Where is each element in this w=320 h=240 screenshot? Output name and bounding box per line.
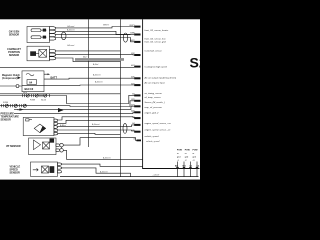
- svg-text:No.4: No.4: [23, 92, 27, 94]
- bottom letterbox bar: [0, 180, 200, 200]
- svg-text:map_oil_pressure: map_oil_pressure: [145, 107, 163, 109]
- power ground table: [177, 150, 198, 162]
- svg-text:LtGreen’: LtGreen’: [67, 44, 75, 47]
- camshaft sensor box: [27, 46, 50, 61]
- camshaft sensor connector: [50, 50, 56, 60]
- top letterbox bar: [0, 0, 200, 19]
- shield ellipse O2 left: [61, 32, 66, 40]
- PT sensor box: [23, 117, 54, 135]
- svg-text:LtGreen’: LtGreen’: [67, 25, 75, 28]
- wire PT signal1: [58, 120, 121, 123]
- svg-text:Sensor_(M_results_): Sensor_(M_results_): [145, 101, 166, 104]
- svg-text:...wheel’: ...wheel’: [152, 175, 160, 177]
- ECU connector edge line: [143, 19, 200, 168]
- svg-text:VP SENSOR: VP SENSOR: [6, 145, 21, 148]
- wire camshaft ground: [56, 53, 135, 56]
- AC relay box A4: [22, 71, 44, 92]
- wire vertical bus V2: [119, 19, 121, 176]
- svg-text:B5: B5: [132, 130, 134, 132]
- wire PT ground: [58, 129, 136, 132]
- svg-text:A22: A22: [130, 82, 134, 85]
- svg-text:front_O2_sensor_hov: front_O2_sensor_hov: [145, 38, 167, 41]
- wire VSS ground: [61, 168, 130, 177]
- svg-text:A,Green’: A,Green’: [102, 157, 111, 160]
- wire VP +: [62, 138, 137, 149]
- svg-text:air_timing_sensor: air_timing_sensor: [145, 92, 163, 95]
- svg-text:WHT1’: WHT1’: [103, 25, 110, 27]
- svg-text:front_O2_sensor_heater: front_O2_sensor_heater: [145, 29, 169, 32]
- wire PT aux: [58, 133, 121, 134]
- wire clutch sense: [22, 84, 134, 86]
- oxygen sensor box: [27, 27, 50, 43]
- wire ignition feed: [14, 106, 135, 109]
- power ground drops: [178, 162, 198, 177]
- svg-text:A,Green’: A,Green’: [66, 29, 75, 32]
- shield ellipse O2 right: [123, 33, 127, 42]
- svg-text:X24A: X24A: [129, 32, 135, 35]
- shield ellipse speed: [123, 123, 127, 133]
- wire VSS signal: [61, 164, 142, 166]
- VP sensor box: [29, 138, 56, 155]
- connector circle VP2: [60, 149, 64, 153]
- svg-text:A,Green’: A,Green’: [92, 74, 101, 77]
- PT sensor connector: [54, 119, 58, 135]
- wire vertical bus V1: [88, 19, 90, 147]
- wire PT signal2: [58, 125, 136, 127]
- svg-text:A15: A15: [130, 76, 134, 79]
- svg-text:FUSE: FUSE: [3, 102, 9, 104]
- svg-text:vehicle_speed’: vehicle_speed’: [146, 141, 160, 143]
- svg-text:A31: A31: [130, 110, 134, 113]
- svg-text:B4: B4: [132, 122, 134, 125]
- fuse chain row 2: [0, 101, 135, 107]
- wire over PT box: [14, 112, 135, 113]
- svg-text:er: er: [185, 152, 187, 155]
- wire relay out top: [44, 73, 48, 75]
- ECU pins: label + pad at connector: [129, 25, 141, 142]
- wire clutch ground: [0, 85, 22, 87]
- vehicle speed sensor box: [31, 162, 58, 176]
- svg-text:engine_speed_sensor_+ve: engine_speed_sensor_+ve: [145, 123, 172, 125]
- svg-text:A,Blue’: A,Blue’: [59, 124, 67, 127]
- svg-text:B20: B20: [131, 99, 134, 101]
- wire camshaft signal: [56, 50, 121, 52]
- svg-text:FUSE: FUSE: [30, 100, 36, 102]
- oxygen sensor connector: [50, 27, 56, 40]
- power ground pin designators: [175, 165, 200, 167]
- svg-text:vehicle_speed: vehicle_speed: [145, 136, 160, 138]
- svg-text:BH C2: BH C2: [25, 87, 34, 91]
- svg-text:POW: POW: [185, 150, 190, 152]
- svg-text:er: er: [193, 152, 195, 155]
- wire relay to ECU: [44, 77, 134, 80]
- wire main feed row: [0, 93, 120, 95]
- wire PT 5V: [58, 117, 136, 120]
- svg-text:S2: S2: [190, 55, 201, 71]
- pin bumps on ECU bottom line: [176, 167, 198, 169]
- wire VP -: [63, 150, 142, 159]
- svg-text:SENSOR: SENSOR: [1, 119, 12, 122]
- svg-text:A,Grn’: A,Grn’: [92, 63, 99, 66]
- chassis ground bus: [60, 176, 199, 178]
- svg-text:SENSOR: SENSOR: [9, 33, 20, 36]
- fuse chain row 1: [0, 94, 135, 104]
- svg-text:A,Green’: A,Green’: [99, 170, 108, 173]
- arrow into relay: [18, 76, 21, 79]
- svg-text:SENSOR: SENSOR: [9, 54, 20, 57]
- wire O2 signal: [56, 34, 131, 36]
- svg-text:A,Green’: A,Green’: [94, 81, 103, 84]
- VP connector: [56, 144, 60, 151]
- svg-text:Cooling fan high speed: Cooling fan high speed: [145, 66, 168, 68]
- svg-text:No.13: No.13: [41, 100, 46, 102]
- svg-text:A6B1: A6B1: [129, 39, 134, 42]
- wire camshaft return: [56, 58, 121, 62]
- svg-text:SENSOR: SENSOR: [10, 171, 21, 174]
- VSS connector: [58, 163, 62, 173]
- wire O2 heater +: [56, 27, 135, 28]
- gray highlighted wire: [75, 58, 124, 61]
- arrow small: [20, 108, 24, 111]
- arrow 4: [48, 73, 51, 75]
- svg-text:B10: B10: [131, 53, 134, 55]
- connector circle on clutch wire: [16, 85, 19, 88]
- svg-text:(Compressor): (Compressor): [2, 78, 17, 80]
- svg-text:front_O2_sensor_gnd: front_O2_sensor_gnd: [145, 41, 167, 44]
- svg-text:C1: C1: [132, 116, 134, 118]
- wire AC to ECU: [0, 67, 134, 69]
- svg-text:A,Green’: A,Green’: [91, 123, 100, 126]
- connector circle VP1: [60, 143, 64, 147]
- svg-text:oil_temp_sensor: oil_temp_sensor: [145, 96, 161, 99]
- svg-text:Air con request input: Air con request input: [144, 81, 165, 84]
- wire O2 ground: [56, 38, 135, 42]
- svg-text:POW: POW: [193, 150, 198, 152]
- svg-text:A23: A23: [130, 104, 134, 107]
- svg-text:Air con output input(relay d: Air con output input(relay driven): [144, 76, 177, 79]
- ECU signal names right column: [144, 29, 177, 138]
- wire O2 heater -: [56, 31, 135, 34]
- svg-text:POW: POW: [177, 150, 182, 152]
- arrow mid: [58, 108, 64, 112]
- svg-text:engine_gnd_2: engine_gnd_2: [145, 112, 160, 114]
- svg-text:WHT1: WHT1: [129, 25, 134, 27]
- svg-text:B2: B2: [132, 94, 134, 96]
- svg-text:engine_speed_sensor_-ve: engine_speed_sensor_-ve: [145, 130, 172, 132]
- svg-text:Camshaft_sensor: Camshaft_sensor: [145, 49, 162, 52]
- svg-text:er: er: [177, 152, 179, 155]
